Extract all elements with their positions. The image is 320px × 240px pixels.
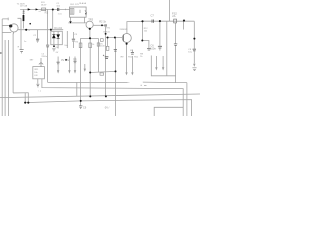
wire gnd lead 2 [68,57,70,71]
svg-text:R1: R1 [45,10,49,14]
bus segment A y82 [48,81,130,83]
node x105 mid [105,33,107,35]
capacitor C3 vertical [72,32,74,48]
node bridge in left [25,29,27,31]
ground arrow 3 [74,70,76,73]
svg-text:2N3055: 2N3055 [120,29,128,31]
wire stub below rail [182,21,184,30]
wire drop to L4 b [27,93,29,103]
resistor box on x90 [89,43,92,48]
drop from segA to L2 [76,82,78,96]
svg-text:10u: 10u [64,45,67,47]
bus line L1a [13,92,29,94]
node stray [29,23,31,25]
node base b [114,37,116,39]
svg-text:10k: 10k [144,30,147,32]
svg-text:LIN: LIN [34,75,38,77]
node x194 [193,38,195,40]
node x142 low [141,40,143,42]
capacitor C3 plates [72,39,75,41]
diode arms [54,31,58,44]
resistor R on base drop [106,46,109,50]
wire TR3 emitter down [89,29,91,39]
specks [141,84,147,86]
capacitor C1 plates [58,8,59,11]
diode D down [56,34,60,38]
transformer T1 secondary drop [23,9,25,28]
ground sym x21 [20,50,24,53]
fuse F1 box [42,8,46,11]
cap on x115 [114,50,117,52]
series cap on x175 [174,44,177,46]
diode D up [52,34,56,38]
fuse box on rail x175 [174,19,177,23]
wire long vertical to bus [97,38,99,72]
ground below bridge [52,49,55,51]
diode D1 on rail [28,8,31,10]
ground marks x149 [147,49,151,50]
capacitor C2 plates [36,39,39,41]
wire bridge input line [18,29,63,31]
wire under relay [68,22,86,24]
svg-text:1k: 1k [92,44,94,46]
rail tick [65,9,67,10]
ground arrow 4 [84,69,86,72]
wire small comp lead [131,50,133,73]
wire from top edge [168,0,170,21]
wire TR1 base [2,24,9,26]
wire mid long vertical [115,38,117,117]
ground dashes under right arrow [192,68,196,71]
ground arrow 6 TR2 emitter [125,72,127,75]
node L4 mid [80,100,82,102]
ground arrow U a [155,67,157,70]
diode on base feed [100,39,103,42]
wire TR2 emitter [126,43,128,73]
wire gnd lead 4 [84,64,86,69]
node rail2 b [159,20,161,22]
zener dark blob [23,15,25,21]
wire fuse branch long [143,23,187,116]
relay contact diagonal [85,10,87,12]
wire from rail dot down to bridge line [52,10,54,30]
ground arrow right [193,64,195,67]
cap bars on gnd lead 3 [74,61,77,63]
node rail2 a [141,20,143,22]
node text bullet [65,59,67,61]
pot arrow chevron [39,63,43,67]
transistor TR2 [122,34,131,43]
capacitor C2 lead [37,30,39,43]
wire R chain mid [89,38,91,96]
cap bars on gnd lead 1 [57,62,60,64]
wire branch 2 [166,21,168,76]
pot pin left [37,79,39,84]
capacitor on x132 [131,52,134,54]
relay dark mark [85,13,86,15]
node TR3 out [101,24,103,26]
node L2 a [89,95,91,97]
wire vertical from rail to cap [47,9,49,82]
ground sym x80 bottom [79,106,82,109]
wire gnd lead 3 [74,57,76,71]
relay switch pivot [79,10,81,13]
comp box on link line [100,73,104,75]
svg-text:0V ⁄: 0V ⁄ [105,105,110,109]
node rail2 c [183,20,185,22]
edge smudge [0,52,2,54]
wire gnd lead 1 [57,57,59,71]
wire TR1 lower lead [2,31,11,33]
bus corner bottom right [154,107,183,116]
wire TR2 collector up and right [127,22,143,34]
pot ground sym [36,84,39,87]
capacitor on x160 [158,46,162,48]
bus line L4 with corner [25,100,191,116]
wire jog to left vertical [18,18,22,49]
node under bridge [53,45,55,47]
node gnd link b [115,70,117,72]
junction dots [24,8,195,103]
node L4 b [27,102,29,104]
wire TR3 collector right [93,24,105,26]
node L4 a [24,102,26,104]
relay box left pin [69,17,71,21]
wire U loop [151,56,175,76]
svg-text:100n: 100n [150,46,156,50]
capacitor C4 plates on x47 [46,45,49,47]
wire base resistor drop [107,38,109,47]
svg-text:C4: C4 [73,57,77,61]
ground arrows row [57,64,196,76]
wire TR2 base line [106,37,123,39]
wire top rail AC [20,8,69,10]
capacitor on rail x152 [152,20,153,23]
relay box right pin [84,17,86,23]
svg-text:R2 1k: R2 1k [99,20,106,24]
arrow lead a [155,56,157,68]
node rail dot [52,8,54,10]
bus line L2 [0,94,200,98]
wire TR1 emitter down [12,34,14,93]
svg-text:100n: 100n [58,13,62,15]
relay box RL1 [70,7,87,17]
small comp box on x98 [97,43,99,46]
wire left bus 2 [4,40,6,116]
svg-text:RLA 6A: RLA 6A [79,2,86,5]
svg-text:2200u: 2200u [41,56,47,58]
wire drop to L4 a [24,93,26,103]
wire ground link horizontal [90,71,115,72]
wire x105 long vertical [105,27,107,97]
capacitor C5 polarized [105,57,109,59]
node gnd link a [89,72,91,74]
svg-text:BD131: BD131 [104,32,111,34]
wire output rail [143,20,195,22]
wire cap branch [159,21,161,50]
wire corner to ground [143,41,149,49]
svg-text:2A 5V: 2A 5V [41,4,47,7]
wire TR1 input top [2,18,8,21]
arrow lead b [162,56,164,68]
wire mid horizontal [81,37,99,39]
bridge bottom leads [54,45,58,49]
svg-text:C7: C7 [151,14,155,18]
capacitor C4 on TR3 output [105,24,106,26]
svg-text:2A: 2A [172,14,175,18]
wire left bus 1 [1,19,3,116]
svg-text:1n: 1n [24,41,26,43]
svg-text:TR3: TR3 [88,18,93,22]
junction dot TR3 emitter [89,28,91,30]
svg-text:0V 12V: 0V 12V [61,58,70,62]
pot box [33,67,45,79]
svg-text:·' /: ·' / [38,89,41,93]
ground arrow 2 [68,70,70,73]
node base a [107,37,109,39]
wire right of bridge [66,31,68,48]
node bridge in right [50,29,52,31]
diode bridge outline [51,31,63,44]
bus line Y88 from pot [42,79,183,116]
capacitor on x194 [193,49,196,51]
wire left bus 3 [8,40,10,116]
ground arrow 1 [57,70,59,73]
diode D2 on rail [36,8,39,10]
wire R drop from rail [142,21,144,40]
wire pot feed [40,58,42,63]
svg-text:D1-D4: D1-D4 [54,26,62,30]
text labels (smudge scale) [17,2,193,110]
wire R chain left vertical [80,38,82,105]
relay coil rect [70,9,74,15]
wire right corner down [193,21,195,63]
svg-text:12V 2A: 12V 2A [20,5,28,8]
svg-text:RL1 12V: RL1 12V [70,4,79,6]
transistor TR1 [10,24,18,32]
node TR2 emitter [126,43,128,45]
resistor box on x80 [79,43,82,48]
node mid line [89,37,91,39]
ground arrow U b [162,67,164,70]
transistor TR3 [86,21,93,28]
svg-text:C9: C9 [83,105,87,109]
node L2 b [105,95,107,97]
ground arrow 5 [131,72,133,75]
diode D3 under relay [69,21,71,23]
transformer marks [23,11,25,13]
